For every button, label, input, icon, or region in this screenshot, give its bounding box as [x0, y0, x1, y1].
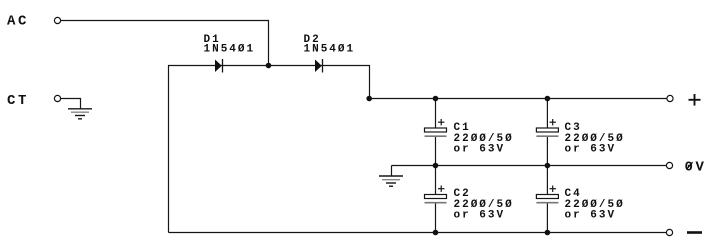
svg-text:or 63V: or 63V	[454, 144, 506, 156]
svg-text:or 63V: or 63V	[565, 210, 617, 222]
terminal 0V	[666, 162, 672, 168]
wire mid ground stub	[391, 166, 393, 177]
label minus output	[687, 231, 702, 234]
label plus output	[689, 94, 701, 106]
ground mid	[379, 176, 403, 186]
svg-text:1N54Ø1: 1N54Ø1	[204, 44, 256, 56]
diode D2	[315, 59, 323, 73]
terminal AC	[54, 17, 60, 23]
capacitor C1	[425, 119, 447, 136]
capacitor C3	[536, 119, 558, 136]
terminal CT	[54, 95, 60, 101]
svg-text:or 63V: or 63V	[565, 144, 617, 156]
svg-text:1N54Ø1: 1N54Ø1	[304, 44, 356, 56]
node C3/C4 mid	[545, 163, 551, 169]
terminal minus	[666, 229, 672, 235]
wire AC top	[61, 21, 269, 66]
node C2 bottom	[433, 230, 439, 236]
wire C1 leads	[435, 99, 437, 129]
svg-text:or 63V: or 63V	[454, 210, 506, 222]
wire plus rail	[370, 98, 667, 100]
wire bottom rail	[169, 232, 667, 234]
capacitor C4	[536, 186, 558, 203]
svg-text:AC: AC	[7, 13, 29, 29]
node C1 top	[433, 96, 439, 102]
node C3 top	[545, 96, 551, 102]
node junction D2 out	[366, 96, 372, 102]
capacitor C2	[425, 186, 447, 203]
terminal plus	[667, 95, 673, 101]
wire CT stub	[61, 99, 81, 109]
svg-text:CT: CT	[7, 93, 29, 109]
wire C4 leads	[546, 166, 548, 195]
wire C3 leads	[546, 99, 548, 129]
wire diode row	[168, 66, 370, 99]
node C1/C2 mid	[433, 163, 439, 169]
wire C2 leads	[435, 166, 437, 195]
diode D1	[215, 59, 223, 73]
node C4 bottom	[545, 230, 551, 236]
wire left drop	[168, 66, 170, 233]
node junction AC/diode	[266, 63, 272, 69]
wire 0V rail	[392, 165, 667, 167]
ground CT	[68, 109, 92, 119]
